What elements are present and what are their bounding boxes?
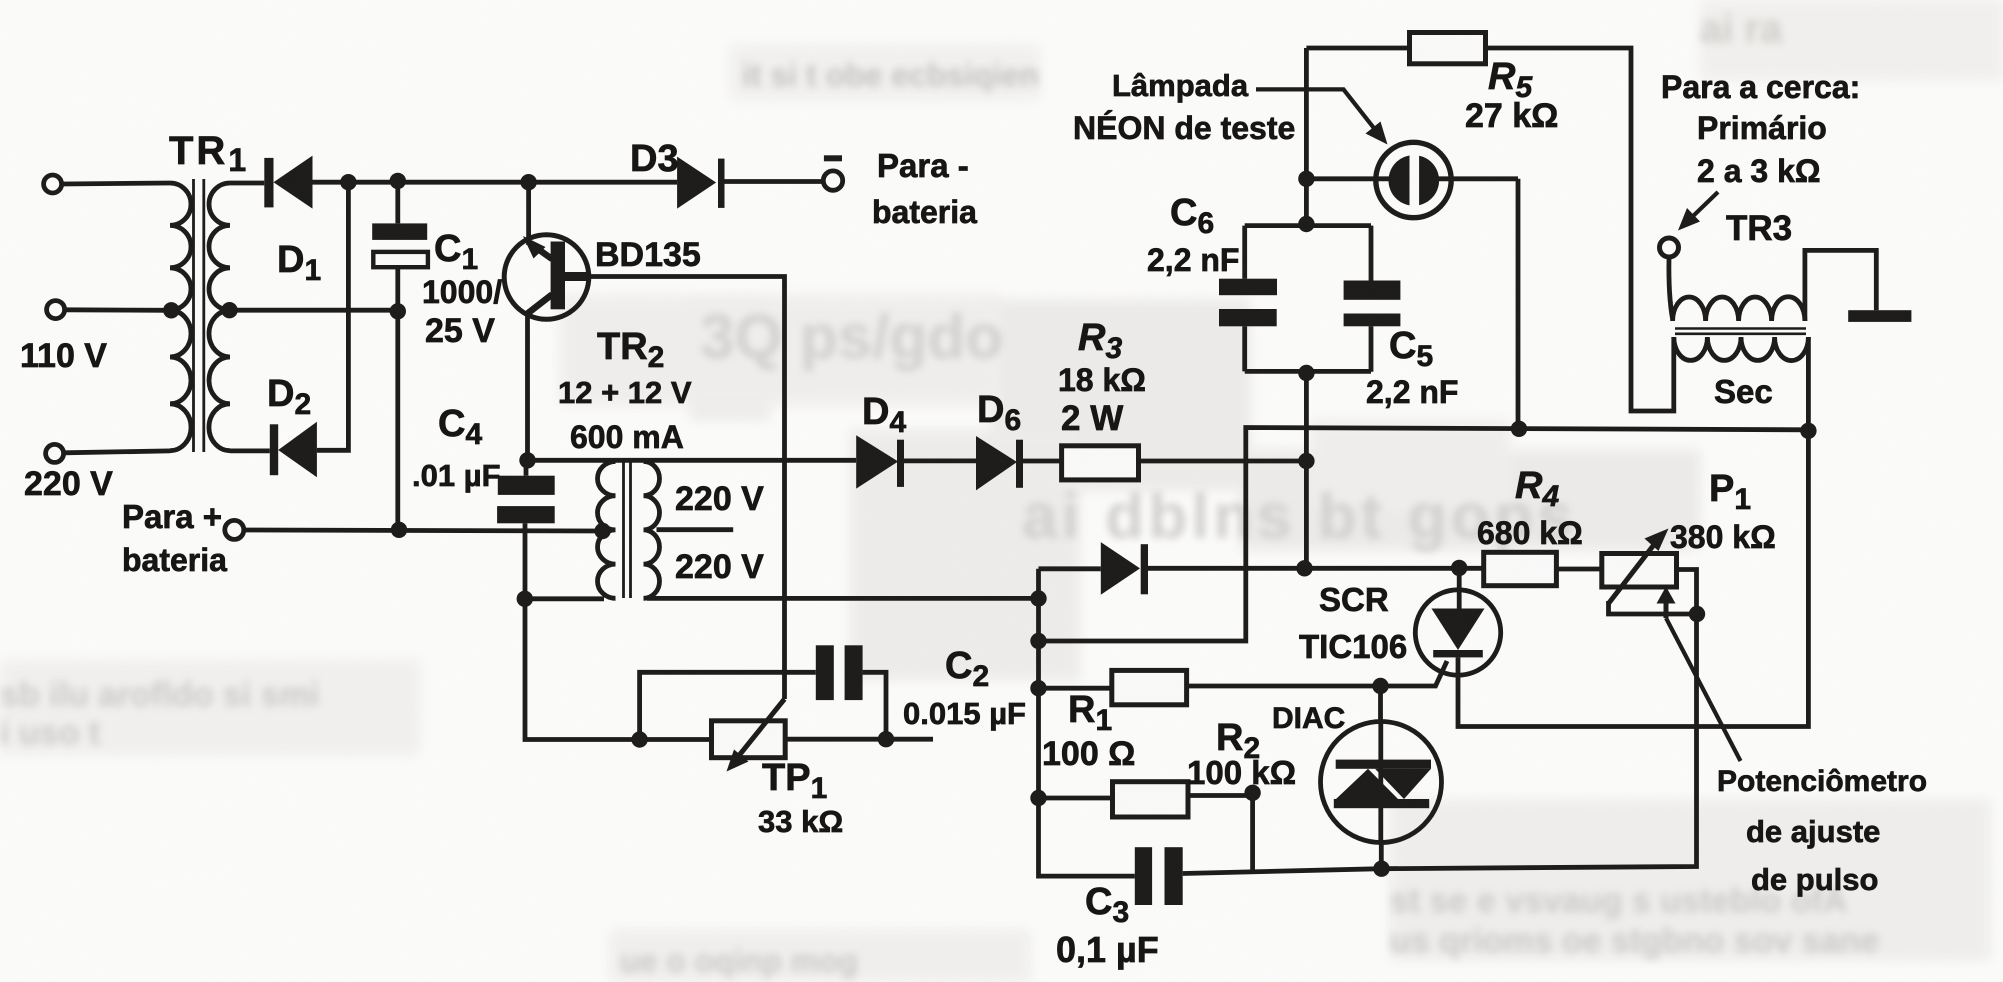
wire: C1 bottom stub down to Para+ rail [395,267,400,530]
node: top rail / D2 branch junction [340,174,356,190]
svg-text:220 V: 220 V [675,480,764,518]
resistor R5 body [1410,33,1486,64]
svg-text:D3: D3 [630,138,679,180]
svg-text:TIC106: TIC106 [1299,628,1407,665]
wire: C4 top stub [524,460,529,475]
wire: 220V terminal to TR1 primary bottom [64,451,170,453]
svg-text:2 W: 2 W [1061,399,1123,438]
node: right bus / R2 junction [1030,790,1046,806]
SCR cathode bar [1433,650,1483,657]
wire: TR2 top rail (collector node to D4) [528,458,857,463]
svg-text:2,2 nF: 2,2 nF [1147,242,1239,278]
svg-text:DIAC: DIAC [1272,702,1345,735]
wire: neon right lead to HV rail [1516,179,1521,429]
svg-text:25 V: 25 V [425,312,495,350]
diode D1 (cathode bar left, pointing left) [264,156,312,209]
wire: DIAC bottom to rail [1379,842,1384,869]
wire: BD135 base to TP1 wiper (right then down) [586,277,785,700]
wire: C5 top stub [1369,226,1374,281]
wire: C2 loop left side [640,672,816,739]
transformer TR3 secondary winding [1674,337,1809,361]
wire: top terminal to TR1 primary top [62,183,170,184]
resistor R3 body [1062,446,1139,480]
capacitor C3 right plate [1165,847,1183,905]
capacitor C5 top plate [1344,281,1401,300]
transistor Q1 BD135 body [504,235,589,320]
potentiometer P1 body [1602,554,1677,588]
wire: TP1 left wire [640,737,712,742]
wire: TR2 right winding center tap stub [657,527,734,532]
wire: C6 top stub [1242,226,1247,279]
node: TP1 right / C2 right junction [878,731,894,747]
svg-text:2,2 nF: 2,2 nF [1366,374,1458,410]
svg-text:18 kΩ: 18 kΩ [1058,362,1146,398]
node: R3 output junction [1298,453,1314,469]
transformer TR3 primary winding [1673,297,1805,321]
svg-text:100 Ω: 100 Ω [1042,735,1135,773]
capacitor C2 right plate [845,645,863,700]
DIAC left triangle (up) [1336,769,1398,799]
node: top rail / BD135 emitter junction [520,174,536,190]
node: right bus / TR2 bottom junction [1030,590,1046,606]
DIAC right triangle (down) [1375,769,1431,799]
terminal: TR3 primary input [1660,238,1679,257]
DIAC bottom bar [1334,799,1429,808]
wire: C6 bottom stub [1242,326,1247,371]
capacitor C4 bottom plate [497,506,555,523]
node: HV rail / neon branch junction [1511,421,1527,437]
svg-text:2 a 3 kΩ: 2 a 3 kΩ [1697,153,1821,189]
svg-text:12 + 12 V: 12 + 12 V [558,375,692,410]
wire: C-bank junction down to R3 node and D5 node [1304,373,1309,568]
svg-text:Primário: Primário [1697,110,1827,146]
capacitor C6 top plate [1219,279,1277,296]
wire: C6/C5 top connecting wire [1245,223,1371,228]
svg-text:27 kΩ: 27 kΩ [1465,97,1558,135]
svg-text:33 kΩ: 33 kΩ [758,804,843,839]
wire: R5 left wire from vertical [1306,46,1409,51]
neon test lamp body [1376,142,1451,217]
terminal: Para - bateria [823,171,842,190]
svg-text:SCR: SCR [1319,581,1389,618]
DIAC body circle [1321,722,1442,843]
capacitor C4 top plate [498,476,555,495]
svg-text:NÉON de teste: NÉON de teste [1073,110,1295,146]
wire: vertical from top rail down to D2 output [317,182,349,450]
annotation line: Lampada label to neon lamp [1256,89,1377,132]
resistor R2 body [1113,782,1189,817]
svg-text:de ajuste: de ajuste [1746,814,1880,849]
node: SCR anode junction [1451,560,1467,576]
svg-text:Para +: Para + [122,498,222,535]
wire: TR1 secondary bottom to D2 [230,448,270,453]
svg-text:Sec: Sec [1714,373,1773,410]
transistor BD135 base lead inside [565,272,588,281]
diode D4 (pointing right) [856,435,904,488]
wire: DIAC top feed from gate node [1378,686,1383,722]
wire: C1 top stub from top rail [395,181,400,224]
wire: TR1 secondary top to D1 anode [230,181,264,186]
wire: R1 input from bus [1039,686,1112,691]
node: HV rail / TR3 secondary junction [1800,423,1816,439]
node: top rail / C1 top junction [390,173,406,189]
wire: R4 to P1 [1556,567,1601,572]
wire: Para+ rail to TR2 left winding tap [244,530,603,531]
potentiometer P1 diagonal arrow [1609,540,1659,604]
wire: BD135 emitter up to top rail [526,182,531,240]
wire: P1 lower-left terminal link to wiper node [1609,601,1698,614]
node: DIAC bottom rail junction [1373,861,1389,877]
node: P1 wiper junction [1689,606,1705,622]
wire: D6 cathode to R3 [1023,459,1062,464]
transformer TR2 left winding [598,462,616,599]
wire: TR2 right winding bottom rail to right bus [647,596,1039,601]
wire: C2 right side down to TP1 right node [863,672,886,739]
wire: right vertical bus (D5 anode to bottom rail) [1039,569,1135,876]
diode D6 (pointing right) [976,436,1023,490]
wire: SCR anode from D5 rail [1457,568,1462,609]
wire: R2 output to bottom rail [1188,796,1253,874]
DIAC top bar [1336,760,1431,769]
svg-text:bateria: bateria [872,194,977,230]
node: Para+ rail / C1 branch junction [391,522,407,538]
terminal: Para + bateria [225,520,244,539]
SCR TIC106 body [1415,590,1500,675]
wire: TP1 right wire and stub [785,737,933,742]
capacitor C5 bottom plate [1344,314,1401,327]
node: C6/C5 top junction [1298,216,1314,232]
annotation arrow: 2 a 3 kOhm to TR3 primary terminal [1690,192,1718,219]
svg-text:220 V: 220 V [24,465,113,503]
node: BD135 collector / TR2 top junction [519,452,535,468]
wire: SCR gate diagonal and gate wire to R1/DIAC node [1187,661,1447,686]
node: right bus / R1 junction [1030,680,1046,696]
node: C6/C5 bottom junction [1298,365,1314,381]
svg-text:1000/: 1000/ [422,274,502,310]
transistor BD135 collector diagonal [528,295,553,314]
wire: neon lamp left feed [1306,176,1518,181]
resistor R4 body [1484,552,1557,585]
potentiometer P1 wiper arrow [1664,601,1669,618]
annotation line: wiper to Potenciometro label [1666,618,1741,761]
node: TP1 left / C2 loop junction [631,731,647,747]
wire: P1 right side down to bottom rail corner [1183,570,1697,874]
svg-text:TR3: TR3 [1726,209,1792,248]
wire: vertical from R5 left end down past neon feed to C6/C5 top [1304,48,1309,224]
svg-text:110 V: 110 V [20,337,107,375]
node: D5 cathode / C-bank junction [1296,560,1312,576]
wire: TR3 primary left lead from terminal [1669,258,1673,320]
wire: C5 bottom stub [1369,326,1374,372]
node: SCR gate / R1 / DIAC junction [1372,678,1388,694]
capacitor C6 bottom plate [1219,309,1277,326]
wire: C4 bottom through Para+ rail down to TR2 bottom and TP1 left [525,523,640,739]
svg-text:BD135: BD135 [595,236,701,274]
trimpot TP1 wiper diagonal arrow [737,699,785,758]
wire: R3 output to C5/C6 junction vertical [1139,459,1307,464]
wire: TR2 left winding bottom to vertical bus [525,596,605,601]
resistor R1 body [1112,670,1187,704]
svg-text:220 V: 220 V [675,548,764,586]
wire: fence HV feed from right bus up and across [1039,428,1809,642]
svg-text:380 kΩ: 380 kΩ [1670,519,1776,555]
transistor BD135 emitter diagonal with arrow [528,242,553,260]
transformer TR2 right winding [644,462,660,599]
svg-text:Para a cerca:: Para a cerca: [1661,69,1860,105]
wire: TR1 secondary center tap to C1 bottom node [230,308,398,313]
DIAC internal vertical lead [1378,722,1383,842]
svg-text:Para -: Para - [877,147,969,184]
SCR triangle [1432,609,1485,651]
svg-text:0.015 µF: 0.015 µF [903,696,1026,731]
node: C1 bottom / center-tap wire junction [390,303,406,319]
fence electrode bar (Para a cerca) [1848,310,1911,322]
node: neon feed junction [1298,171,1314,187]
wire: D3 cathode to minus battery terminal [725,179,824,184]
wire: R5 right to TR3 secondary left lead [1486,48,1674,411]
node: right bus / fence feed junction [1030,633,1046,649]
wire: D5 anode wire [1039,566,1101,571]
capacitor C3 left plate [1135,847,1152,905]
wire: D5 cathode through junctions to R4 [1148,566,1484,571]
node: R2 output corner junction [1244,785,1260,801]
node: TR2 left winding bottom junction [517,591,533,607]
diode D3 (pointing right) [677,157,724,209]
svg-text:de pulso: de pulso [1751,862,1878,897]
neon lamp electrodes [1389,155,1440,206]
svg-text:Lâmpada: Lâmpada [1112,68,1249,103]
wire: D4 cathode to D6 anode [904,458,976,463]
capacitor C2 left plate [816,645,834,700]
wire: TR3 secondary right lead down to SCR cathode line [1458,337,1808,727]
wire: top rail D1 to D3 [313,180,678,185]
capacitor C1 electrolytic top plate (solid) [372,223,427,240]
transformer TR1 core [194,179,204,452]
wire: TR3 primary right lead to fence electrode [1805,250,1876,321]
terminal: AC input bottom (220 V) [46,444,64,462]
capacitor C1 bottom plate (hollow) [373,252,428,267]
minus sign above terminal [824,155,842,161]
transistor BD135 base bar [551,242,565,310]
transformer TR3 core [1675,329,1806,334]
node: TR2 left winding center tap [594,523,610,539]
wire: R2 input from bus [1039,796,1113,801]
svg-text:600 mA: 600 mA [570,419,684,455]
diode D5 (pointing right) [1101,542,1148,595]
svg-text:.01 µF: .01 µF [412,458,501,493]
svg-text:bateria: bateria [122,542,227,578]
svg-text:Potenciômetro: Potenciômetro [1717,765,1927,798]
transformer TR1 secondary winding [209,183,230,451]
svg-text:680 kΩ: 680 kΩ [1477,515,1583,551]
svg-text:100 kΩ: 100 kΩ [1187,754,1296,791]
terminal: AC input top [44,175,62,193]
svg-text:0,1 µF: 0,1 µF [1056,929,1159,970]
wire: C6/C5 bottom connecting wire [1245,369,1371,374]
wire: BD135 collector down to TR2 top node [525,314,530,461]
node: TR1 primary 110V tap [163,302,179,318]
node: TR1 secondary center tap [221,302,237,318]
trimpot TP1 body [712,721,786,758]
diode D2 (cathode bar left, pointing left) [270,422,317,478]
terminal: AC input middle (110 V tap) [47,301,65,319]
transformer TR1 primary winding [170,183,191,451]
transformer TR2 core [624,462,631,598]
wire: 110V terminal to TR1 primary tap [65,307,172,312]
